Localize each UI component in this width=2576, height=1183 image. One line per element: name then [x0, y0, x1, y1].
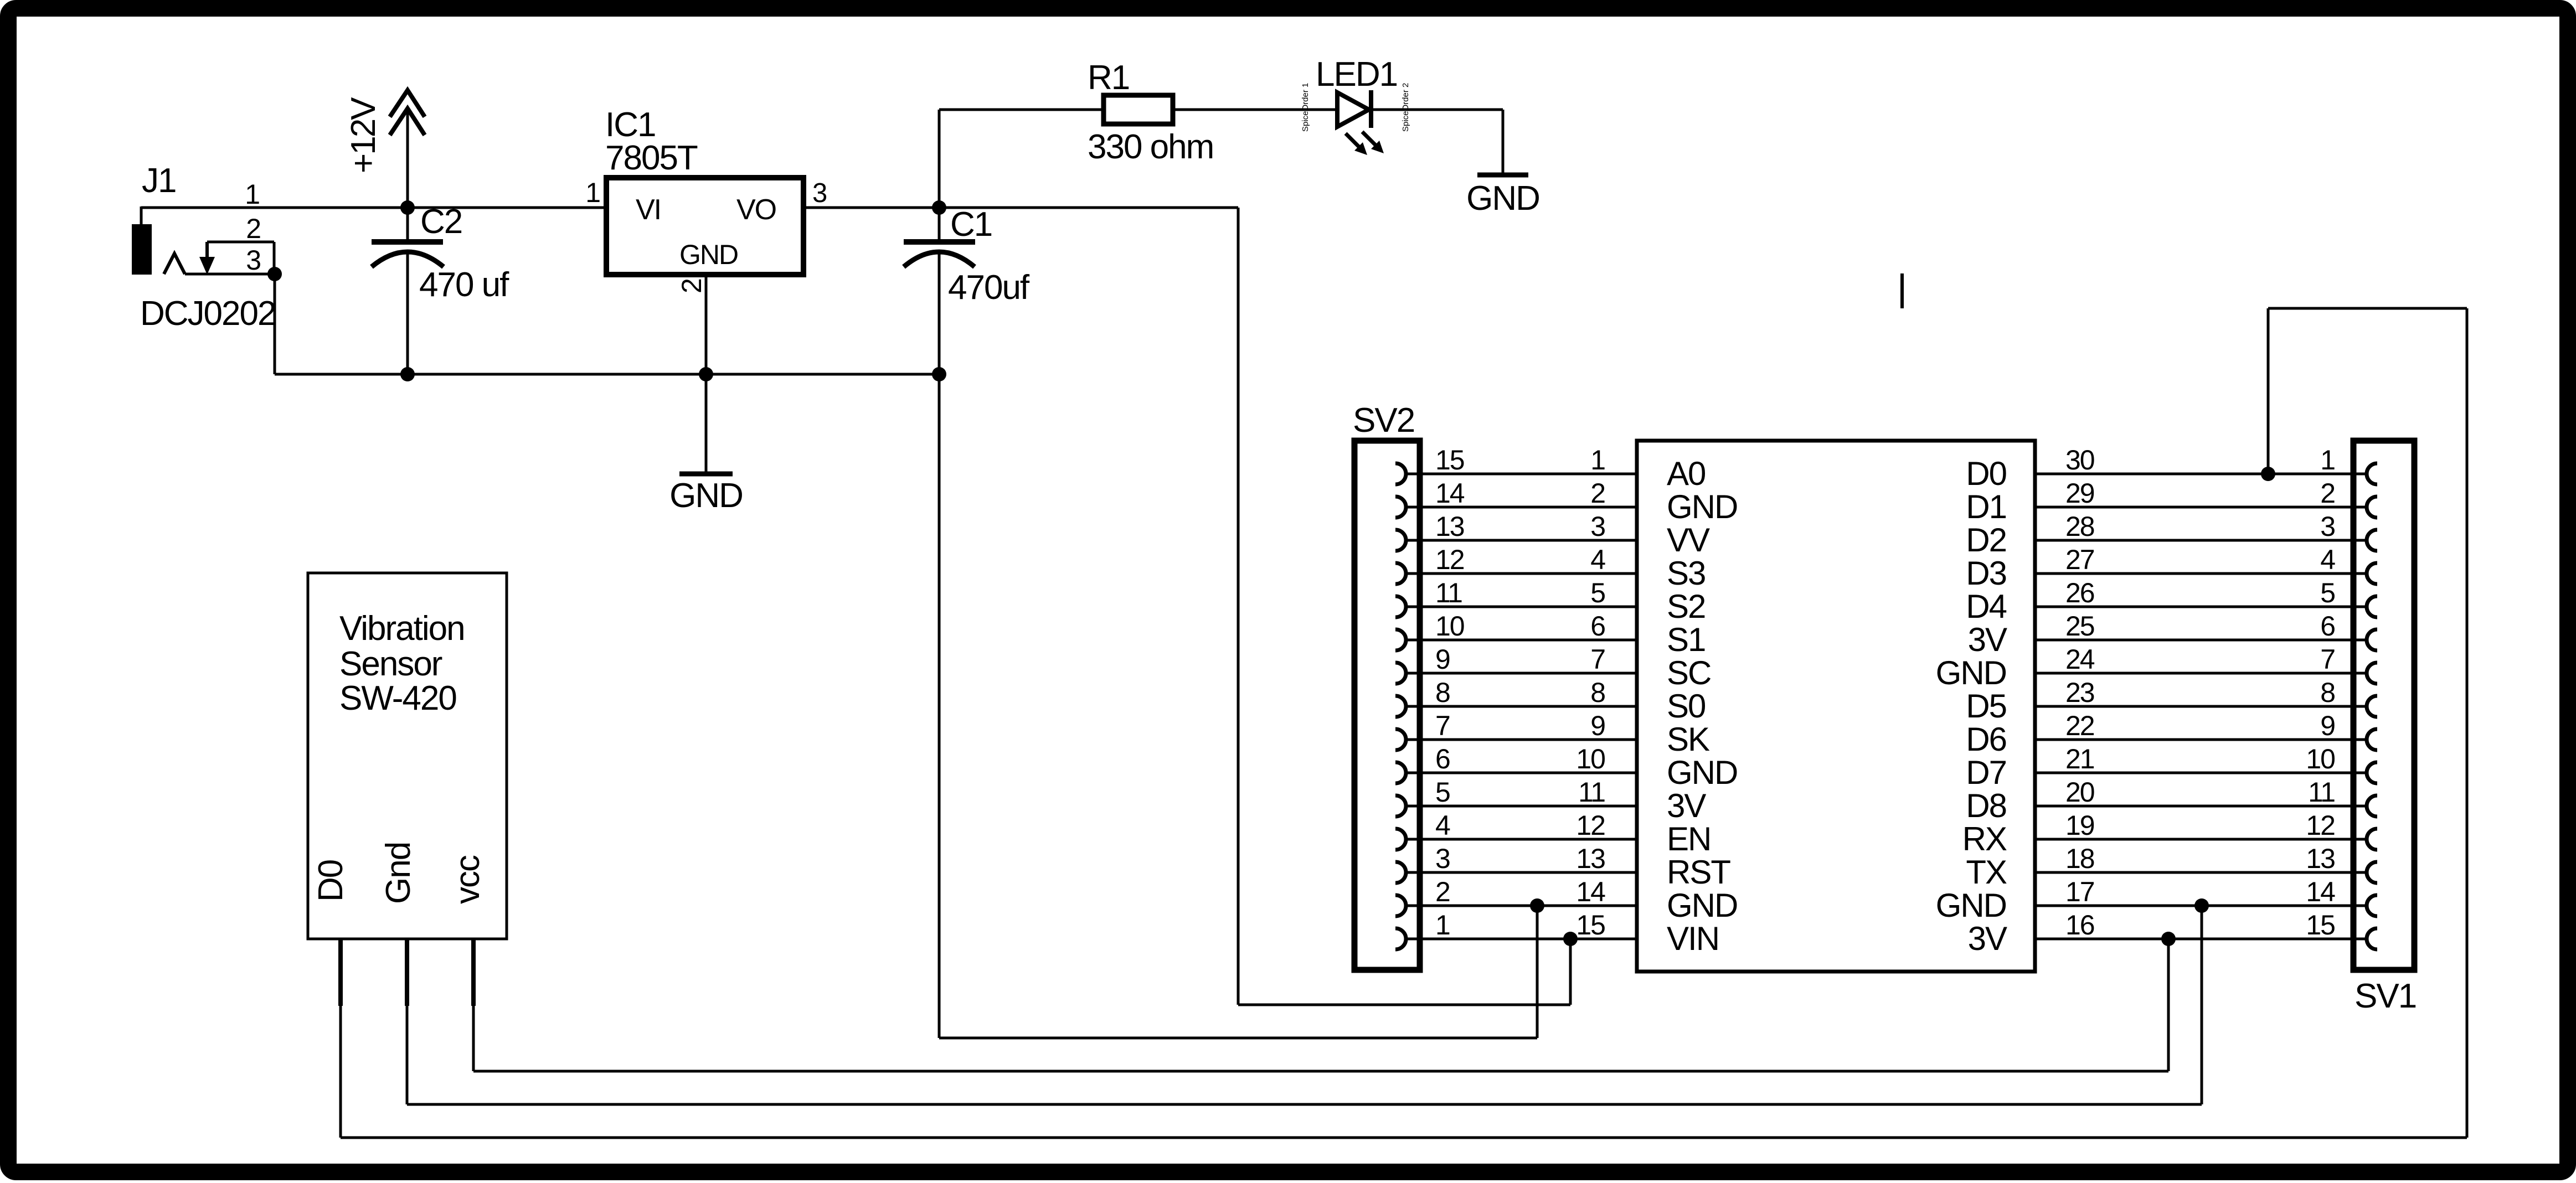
wire SV2 pin 10 to module pin 6	[1405, 639, 1637, 642]
wire module pin 22 to SV1 pin 9	[2035, 738, 2367, 741]
svg-text:29: 29	[2065, 478, 2094, 509]
sensor SW-420 box	[308, 573, 507, 939]
svg-text:A0: A0	[1667, 455, 1706, 492]
connector SV2 contact pin 13	[1395, 530, 1406, 551]
svg-text:D8: D8	[1966, 787, 2006, 824]
connector SV1 contact pin 15	[2367, 928, 2377, 949]
wire SV2 pin 6 to module pin 10	[1405, 772, 1637, 774]
svg-text:1: 1	[585, 177, 600, 208]
svg-text:S3: S3	[1667, 555, 1705, 592]
svg-text:3: 3	[2320, 511, 2335, 542]
svg-text:470 uf: 470 uf	[419, 266, 509, 304]
svg-text:1: 1	[1590, 445, 1605, 476]
svg-text:13: 13	[2306, 843, 2335, 874]
svg-text:6: 6	[1590, 611, 1605, 642]
svg-text:1: 1	[1435, 910, 1450, 941]
svg-text:EN: EN	[1667, 820, 1711, 857]
wire J1 pin3	[185, 273, 275, 276]
svg-text:12: 12	[2306, 810, 2335, 841]
junction +12V/C2 node	[400, 200, 415, 215]
svg-text:2: 2	[1435, 876, 1450, 907]
wire SV2 pin 14 to module pin 2	[1405, 506, 1637, 509]
connector SV2 contact pin 8	[1395, 696, 1406, 717]
connector SV1 contact pin 6	[2367, 629, 2377, 650]
junction GND net right	[2194, 898, 2209, 913]
connector SV1 contact pin 8	[2367, 696, 2377, 717]
wire ground rail	[275, 373, 939, 376]
svg-text:IC1: IC1	[605, 106, 655, 144]
wire VO net to VIN row	[1237, 208, 1240, 1005]
connector SV2 contact pin 3	[1395, 862, 1406, 883]
svg-text:9: 9	[1590, 710, 1605, 741]
svg-text:27: 27	[2065, 544, 2094, 575]
svg-text:15: 15	[1435, 445, 1464, 476]
wire module pin 30 to SV1 pin 1	[2035, 473, 2367, 476]
svg-text:C1: C1	[950, 205, 992, 244]
svg-text:18: 18	[2065, 843, 2094, 874]
wire SV2 pin 15 to module pin 1	[1405, 473, 1637, 476]
svg-text:15: 15	[1576, 910, 1605, 941]
wire SV2 pin 7 to module pin 9	[1405, 738, 1637, 741]
junction VO/C1 node	[932, 200, 946, 215]
svg-text:16: 16	[2065, 910, 2094, 941]
wire vcc bottom	[473, 1070, 2168, 1073]
svg-text:D3: D3	[1966, 555, 2006, 592]
connector SV1 contact pin 1	[2367, 463, 2377, 484]
svg-text:12: 12	[1576, 810, 1605, 841]
junction 3V net right	[2161, 932, 2176, 946]
connector SV2 contact pin 6	[1395, 762, 1406, 783]
junction C1 ground	[932, 367, 946, 381]
connector SV2 contact pin 9	[1395, 663, 1406, 684]
connector SV2 contact pin 14	[1395, 497, 1406, 518]
wire sensor D0 down	[339, 1006, 342, 1138]
svg-text:RST: RST	[1667, 854, 1730, 891]
wire J1 pin1 to IC1 VI	[141, 206, 609, 209]
wire 3V net right down	[2167, 939, 2170, 1071]
pin sensor vcc stub	[471, 939, 476, 1006]
svg-text:4: 4	[2320, 544, 2335, 575]
junction J1 pin2/3 node	[267, 267, 282, 281]
ground symbol under IC1	[705, 374, 708, 472]
svg-text:SW-420: SW-420	[339, 679, 456, 717]
wire LED1 to GND	[1371, 109, 1503, 111]
svg-text:SK: SK	[1667, 721, 1710, 758]
svg-text:5: 5	[1435, 777, 1450, 808]
svg-text:470uf: 470uf	[948, 268, 1030, 307]
connector SV2 box	[1354, 441, 1420, 970]
svg-text:9: 9	[2320, 710, 2335, 741]
svg-text:3: 3	[246, 245, 260, 276]
connector SV1 contact pin 13	[2367, 862, 2377, 883]
wire Gnd bottom	[407, 1103, 2202, 1106]
svg-text:GND: GND	[1667, 754, 1737, 791]
svg-text:Sensor: Sensor	[339, 645, 442, 683]
svg-text:SC: SC	[1667, 654, 1711, 691]
svg-text:3: 3	[812, 178, 827, 208]
pin sensor D0 stub	[338, 939, 343, 1006]
svg-text:GND: GND	[1667, 488, 1737, 525]
svg-text:vcc: vcc	[449, 855, 487, 904]
svg-text:20: 20	[2065, 777, 2094, 808]
svg-text:3V: 3V	[1667, 787, 1706, 824]
svg-text:4: 4	[1590, 544, 1605, 575]
svg-text:7: 7	[2320, 644, 2335, 675]
wire module pin 19 to SV1 pin 12	[2035, 838, 2367, 841]
connector SV1 contact pin 3	[2367, 530, 2377, 551]
svg-text:2: 2	[1590, 478, 1605, 509]
wire SV2 pin 11 to module pin 5	[1405, 606, 1637, 608]
wire R1 to LED1	[1173, 109, 1337, 111]
svg-text:S2: S2	[1667, 588, 1705, 625]
svg-text:GND: GND	[1936, 887, 2006, 924]
wire jack node down	[274, 274, 276, 374]
wire SV2 pin 13 to module pin 3	[1405, 539, 1637, 542]
svg-text:D0: D0	[1966, 455, 2006, 492]
junction SV1 pin1 D0 node	[2261, 467, 2275, 481]
svg-text:S0: S0	[1667, 688, 1706, 725]
svg-text:6: 6	[1435, 743, 1450, 774]
svg-text:8: 8	[2320, 677, 2335, 708]
connector J1 switch arrow	[205, 242, 209, 258]
connector SV1 box	[2353, 441, 2414, 970]
resistor R1	[1104, 95, 1173, 124]
wire module pin 18 to SV1 pin 13	[2035, 871, 2367, 874]
wire IC1 pin2 GND	[705, 275, 708, 374]
led LED1 triangle	[1337, 92, 1369, 127]
svg-text:GND: GND	[1667, 887, 1737, 924]
svg-text:RX: RX	[1962, 820, 2007, 857]
svg-text:D0: D0	[312, 860, 350, 902]
wire R1 branch up	[938, 110, 941, 208]
wire SV2 pin 2 to module pin 14	[1405, 905, 1637, 907]
svg-text:13: 13	[1576, 843, 1605, 874]
wire J1 pin2	[207, 241, 274, 244]
led LED1 cathode bar	[1369, 90, 1373, 128]
svg-text:LED1: LED1	[1316, 55, 1397, 94]
junction IC1 ground	[699, 367, 713, 381]
svg-text:11: 11	[1578, 777, 1605, 808]
cursor tick mark	[1900, 273, 1904, 308]
svg-text:1: 1	[2320, 445, 2335, 476]
capacitor C1	[938, 208, 941, 240]
regulator IC1 box	[606, 178, 803, 275]
junction C2 ground	[400, 367, 415, 381]
wire SV2 pin 9 to module pin 7	[1405, 672, 1637, 675]
svg-text:D7: D7	[1966, 754, 2006, 791]
wire SV2 pin 4 to module pin 12	[1405, 838, 1637, 841]
junction module VIN pin15	[1563, 932, 1578, 946]
connector J1 body	[132, 224, 152, 275]
svg-text:7805T: 7805T	[605, 139, 698, 177]
svg-text:3V: 3V	[1968, 621, 2007, 658]
connector SV2 contact pin 12	[1395, 563, 1406, 584]
svg-text:23: 23	[2065, 677, 2094, 708]
junction module GND pin14	[1530, 898, 1544, 913]
svg-text:SV2: SV2	[1353, 401, 1414, 440]
svg-text:25: 25	[2065, 611, 2094, 642]
connector SV2 contact pin 10	[1395, 629, 1406, 650]
svg-text:13: 13	[1435, 511, 1464, 542]
connector SV2 contact pin 11	[1395, 596, 1406, 617]
svg-text:14: 14	[1576, 876, 1605, 907]
svg-text:19: 19	[2065, 810, 2094, 841]
connector SV1 contact pin 7	[2367, 663, 2377, 684]
svg-text:12: 12	[1435, 544, 1464, 575]
wire module pin 26 to SV1 pin 5	[2035, 606, 2367, 608]
svg-text:3V: 3V	[1968, 920, 2007, 957]
svg-text:Gnd: Gnd	[379, 843, 418, 904]
wire module pin 25 to SV1 pin 6	[2035, 639, 2367, 642]
svg-text:4: 4	[1435, 810, 1450, 841]
wire SV2 pin 5 to module pin 11	[1405, 805, 1637, 808]
connector SV1 contact pin 2	[2367, 497, 2377, 518]
wire module pin 16 to SV1 pin 15	[2035, 938, 2367, 941]
svg-text:D2: D2	[1966, 521, 2006, 559]
wire module pin 21 to SV1 pin 10	[2035, 772, 2367, 774]
wire SV2 pin 1 to module pin 15	[1405, 938, 1637, 941]
wire module pin 27 to SV1 pin 4	[2035, 572, 2367, 575]
svg-text:10: 10	[1576, 743, 1605, 774]
wire GND net right down	[2201, 906, 2203, 1104]
connector SV1 contact pin 5	[2367, 596, 2377, 617]
svg-text:GND: GND	[1466, 179, 1539, 218]
connector SV2 contact pin 2	[1395, 895, 1406, 916]
svg-text:1: 1	[245, 179, 259, 210]
svg-text:17: 17	[2065, 876, 2094, 907]
svg-text:+12V: +12V	[344, 97, 383, 173]
module ESP box	[1637, 441, 2035, 972]
svg-text:C2: C2	[420, 203, 462, 241]
svg-text:14: 14	[2306, 876, 2335, 907]
svg-text:26: 26	[2065, 577, 2094, 608]
svg-text:330 ohm: 330 ohm	[1088, 128, 1213, 166]
svg-text:6: 6	[2320, 611, 2335, 642]
svg-text:5: 5	[1590, 577, 1605, 608]
svg-text:21: 21	[2065, 743, 2094, 774]
svg-text:SpiceOrder 2: SpiceOrder 2	[1401, 83, 1410, 132]
svg-text:D1: D1	[1966, 488, 2006, 525]
wire module pin 17 to SV1 pin 14	[2035, 905, 2367, 907]
svg-text:VV: VV	[1667, 521, 1710, 559]
wire GND net to module	[938, 374, 941, 1038]
svg-text:3: 3	[1435, 843, 1450, 874]
svg-text:2: 2	[676, 279, 707, 293]
led LED1 emission arrows	[1346, 132, 1375, 147]
connector SV1 contact pin 12	[2367, 829, 2377, 850]
connector SV2 contact pin 1	[1395, 928, 1406, 949]
wire module pin 20 to SV1 pin 11	[2035, 805, 2367, 808]
capacitor C2	[406, 208, 409, 240]
svg-text:22: 22	[2065, 710, 2094, 741]
svg-text:J1: J1	[142, 162, 176, 200]
svg-text:SV1: SV1	[2355, 977, 2416, 1015]
pin sensor Gnd stub	[405, 939, 409, 1006]
connector SV1 contact pin 4	[2367, 563, 2377, 584]
connector SV2 contact pin 5	[1395, 795, 1406, 817]
svg-text:30: 30	[2065, 445, 2094, 476]
svg-text:D6: D6	[1966, 721, 2006, 758]
connector SV1 contact pin 10	[2367, 762, 2377, 783]
svg-text:7: 7	[1590, 644, 1605, 675]
svg-text:24: 24	[2065, 644, 2095, 675]
svg-text:10: 10	[2306, 743, 2335, 774]
svg-text:14: 14	[1435, 478, 1465, 509]
wire module pin 28 to SV1 pin 3	[2035, 539, 2367, 542]
svg-text:VIN: VIN	[1667, 920, 1719, 957]
wire J1 pin1 drop	[140, 206, 143, 225]
connector SV1 contact pin 9	[2367, 729, 2377, 750]
svg-text:Vibration: Vibration	[339, 609, 465, 648]
svg-text:11: 11	[2308, 777, 2335, 808]
svg-text:VI: VI	[636, 194, 661, 226]
wire SV2 pin 3 to module pin 13	[1405, 871, 1637, 874]
svg-text:9: 9	[1435, 644, 1450, 675]
svg-text:28: 28	[2065, 511, 2094, 542]
svg-text:R1: R1	[1088, 59, 1129, 97]
svg-text:GND: GND	[679, 239, 738, 270]
svg-text:15: 15	[2306, 910, 2335, 941]
svg-text:3: 3	[1590, 511, 1605, 542]
wire SV2 pin 12 to module pin 4	[1405, 572, 1637, 575]
svg-text:S1: S1	[1667, 621, 1705, 658]
connector SV2 contact pin 4	[1395, 829, 1406, 850]
svg-text:D4: D4	[1966, 588, 2006, 625]
wire SV2 pin 8 to module pin 8	[1405, 705, 1637, 708]
svg-text:VO: VO	[736, 194, 776, 226]
wire IC1 VO to C1 node	[804, 206, 1238, 209]
svg-text:10: 10	[1435, 611, 1464, 642]
connector J1 chevron contact	[164, 254, 185, 274]
ground symbol at LED	[1477, 173, 1528, 178]
svg-text:5: 5	[2320, 577, 2335, 608]
svg-text:2: 2	[246, 213, 260, 244]
connector SV2 contact pin 15	[1395, 463, 1406, 484]
connector SV1 contact pin 11	[2367, 795, 2377, 817]
svg-text:GND: GND	[1936, 654, 2006, 691]
svg-text:TX: TX	[1966, 854, 2007, 891]
wire module pin 24 to SV1 pin 7	[2035, 672, 2367, 675]
svg-text:8: 8	[1435, 677, 1450, 708]
svg-text:8: 8	[1590, 677, 1605, 708]
svg-text:2: 2	[2320, 478, 2335, 509]
svg-text:DCJ0202: DCJ0202	[140, 295, 275, 333]
wire sensor vcc down	[472, 1006, 475, 1071]
svg-text:D5: D5	[1966, 688, 2006, 725]
wire D0 net top	[2267, 308, 2270, 474]
supply +12V symbol	[390, 90, 425, 135]
wire module pin 23 to SV1 pin 8	[2035, 705, 2367, 708]
wire D0 bottom	[341, 1136, 2467, 1139]
connector SV2 contact pin 7	[1395, 729, 1406, 750]
wire sensor Gnd down	[406, 1006, 409, 1104]
svg-text:SpiceOrder 1: SpiceOrder 1	[1301, 83, 1310, 132]
svg-text:11: 11	[1435, 577, 1462, 608]
svg-text:7: 7	[1435, 710, 1450, 741]
connector SV1 contact pin 14	[2367, 895, 2377, 916]
wire module pin 29 to SV1 pin 2	[2035, 506, 2367, 509]
svg-text:GND: GND	[669, 477, 743, 515]
